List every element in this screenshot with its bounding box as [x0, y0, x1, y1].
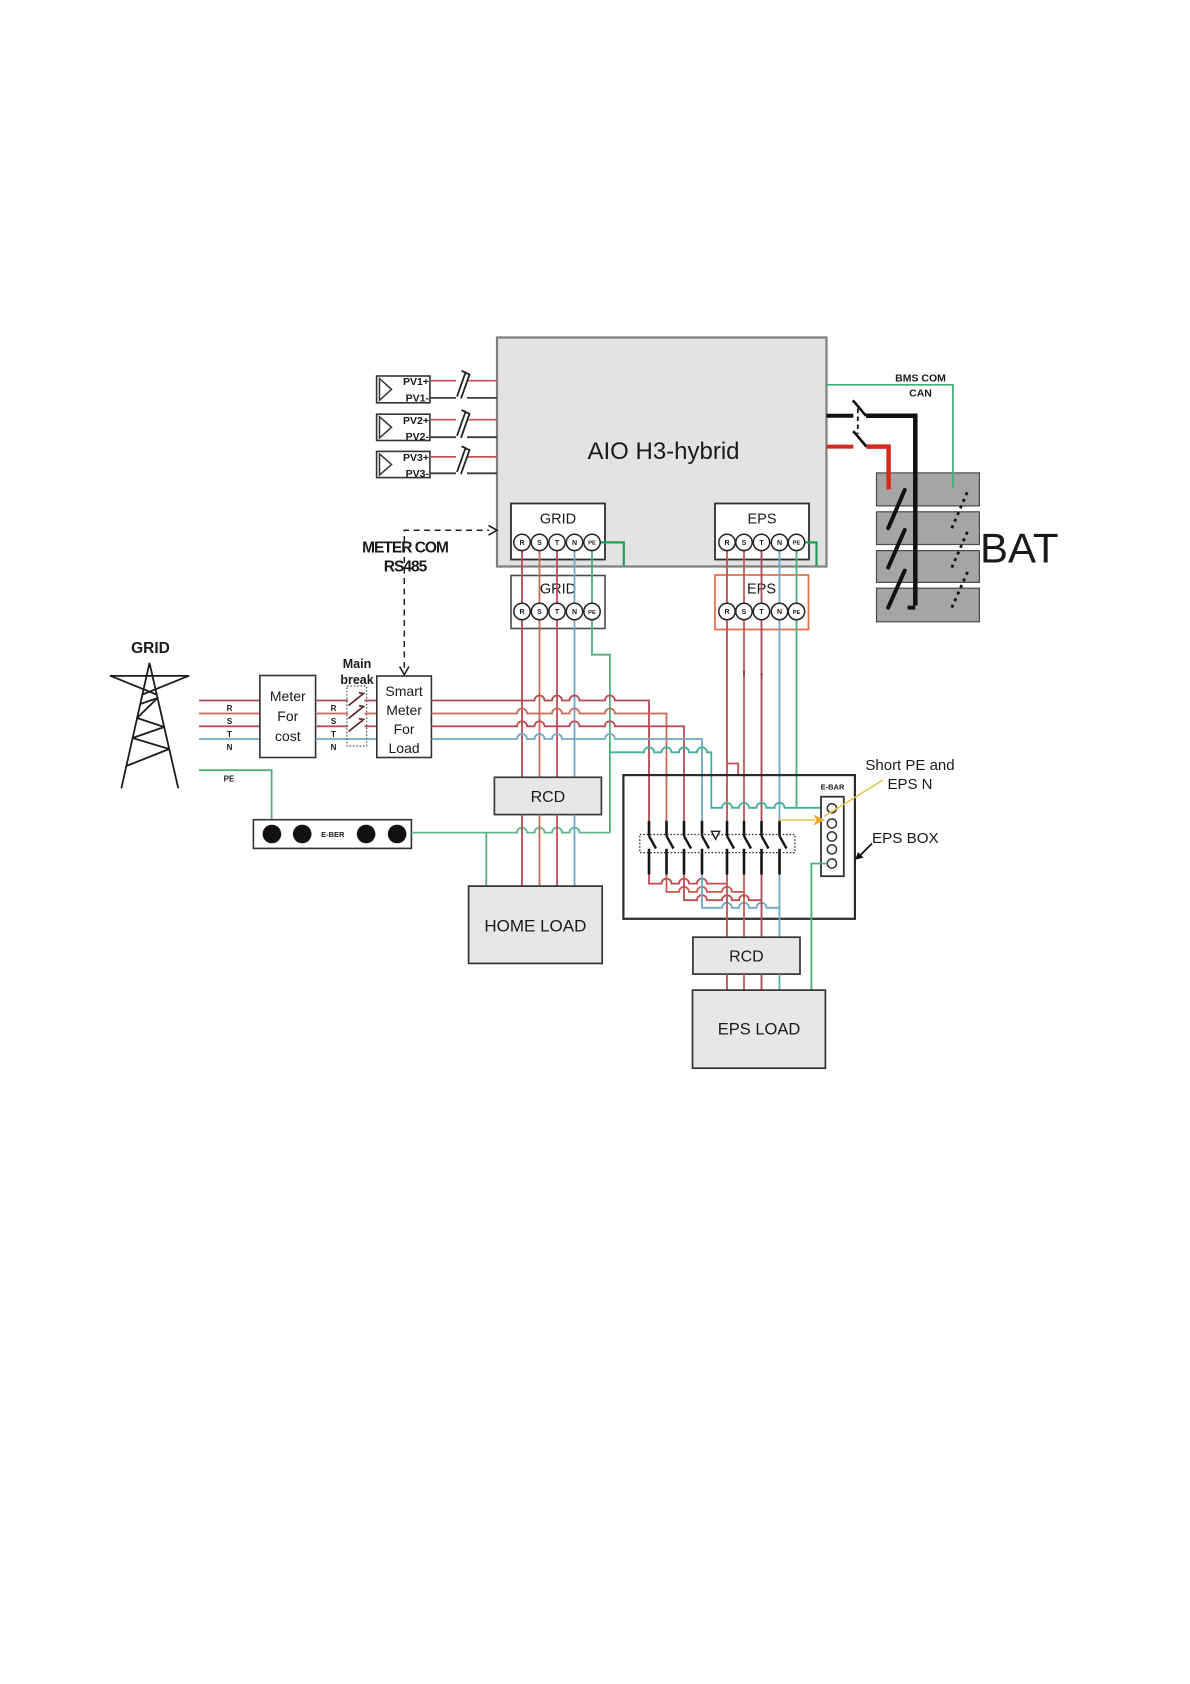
wire PV3- [430, 472, 456, 474]
PV string connector PV1 [377, 376, 430, 405]
switch link dashed [857, 409, 859, 434]
svg-text:PE: PE [588, 541, 596, 547]
wire T grid-to-meter [199, 725, 260, 727]
wire R meter-to-break [316, 700, 348, 702]
wire S grid-to-meter [199, 713, 260, 715]
wire R RCD-to-HOMELOAD [521, 815, 523, 887]
wire N meter-to-smartmeter [316, 738, 377, 740]
battery module 3 [877, 551, 980, 583]
svg-text:PV2+: PV2+ [403, 415, 429, 427]
wire PE branch to HOME LOAD [485, 833, 487, 887]
wire GRID T vertical [556, 550, 558, 777]
svg-text:Smart: Smart [385, 683, 422, 699]
earth busbar E-BAR [821, 783, 845, 877]
svg-text:N: N [331, 743, 337, 752]
contactor pole 2 (grid S) [667, 821, 674, 875]
svg-text:R: R [724, 540, 729, 547]
svg-text:EPS LOAD: EPS LOAD [718, 1021, 801, 1039]
interlock triangle marker [712, 831, 720, 839]
svg-text:N: N [777, 609, 782, 616]
wire EPS S vertical [743, 550, 745, 821]
svg-text:RS485: RS485 [384, 559, 428, 576]
wire PE E-BER to junction (hops over R,S,T,N) [412, 828, 610, 833]
wire GRID S vertical [539, 550, 541, 777]
battery link dashed slash 1 [952, 490, 968, 528]
svg-text:E-BER: E-BER [321, 830, 345, 839]
svg-text:HOME LOAD: HOME LOAD [484, 917, 586, 936]
battery link dashed slash 2 [952, 530, 968, 568]
wire PV1+ [430, 380, 456, 382]
wire eps T to RCD [761, 875, 763, 938]
terminal block EPS (external) [715, 575, 809, 630]
svg-text:RCD: RCD [729, 949, 764, 966]
wire link grid R to eps R (hops) [649, 875, 727, 884]
svg-text:PV3+: PV3+ [403, 452, 429, 464]
energy meter: Meter For cost [260, 676, 316, 758]
svg-text:T: T [759, 609, 764, 616]
contactor pole 5 (eps R) [727, 821, 734, 875]
svg-text:break: break [340, 673, 373, 687]
svg-text:Short PE and: Short PE and [865, 757, 954, 774]
svg-text:METER COM: METER COM [362, 540, 448, 557]
terminals GRID upper R S T N PE [514, 534, 600, 550]
wire eps N RCD-to-EPSLOAD [779, 974, 781, 990]
contactor pole 7 (eps T) [762, 821, 769, 875]
DC isolator Q3 [457, 446, 470, 474]
wire S break-to-smartmeter [365, 713, 377, 715]
terminals GRID lower R S T N PE [514, 603, 600, 619]
svg-text:PV1+: PV1+ [403, 376, 429, 388]
contactor pole 1 (grid R) [649, 821, 656, 875]
wire S meter-to-break [316, 713, 348, 715]
battery link slash 1 [888, 490, 905, 528]
PV string connector PV3 [377, 451, 430, 480]
wire R grid-to-meter [199, 700, 260, 702]
wire eps R RCD-to-EPSLOAD [726, 974, 728, 990]
wire BMS COM CAN (green) [827, 385, 953, 488]
svg-text:EPS N: EPS N [887, 776, 932, 793]
svg-text:Load: Load [389, 740, 420, 756]
contactor pole 4 (grid N) [702, 821, 709, 875]
interlock dotted frame [640, 835, 795, 853]
switch blade BAT+ [853, 400, 866, 415]
svg-text:CAN: CAN [909, 388, 932, 400]
svg-text:PE: PE [793, 610, 801, 616]
wire T smartmeter-to-EPSBOX (hops R,S,N,PE) [431, 721, 684, 821]
svg-text:PE: PE [588, 610, 596, 616]
wire N smartmeter-to-EPSBOX (hops R,S,T,PE) [431, 734, 702, 821]
battery module 4 [877, 588, 980, 622]
wire EPS PE vertical [796, 550, 798, 808]
svg-text:S: S [742, 609, 747, 616]
svg-text:N: N [572, 609, 577, 616]
wire GRID R vertical [521, 550, 523, 777]
svg-text:T: T [331, 730, 336, 739]
wire R smartmeter-to-EPSBOX (hops S,T,N,PE) [431, 696, 649, 821]
battery link slash 2 [888, 530, 905, 568]
DC isolator Q2 [457, 410, 470, 438]
terminal block GRID (inverter) [511, 504, 605, 560]
contactor pole 6 (eps S) [744, 821, 751, 875]
battery module 1 [877, 473, 980, 506]
wire PV1- [430, 397, 456, 399]
utility grid tower [111, 663, 189, 788]
wire GRID N vertical [574, 550, 576, 777]
wire BAT- (red) [827, 445, 854, 449]
wire eps N to RCD [779, 875, 781, 938]
wire PV2- [430, 436, 456, 438]
wire link grid S to eps S (hops) [667, 875, 745, 892]
wire GRID PE stub (inverter edge) [600, 542, 624, 565]
svg-text:For: For [394, 721, 415, 737]
svg-text:S: S [537, 609, 542, 616]
svg-text:S: S [742, 540, 747, 547]
wire N RCD-to-HOMELOAD [574, 815, 576, 887]
wire EPS T vertical [761, 550, 763, 821]
wire T meter-to-break [316, 725, 348, 727]
svg-text:AIO H3-hybrid: AIO H3-hybrid [587, 438, 739, 465]
wire EPS R vertical [726, 550, 728, 821]
wire link grid T to eps T (hops) [684, 875, 762, 901]
svg-text:PE: PE [793, 541, 801, 547]
wire T RCD-to-HOMELOAD [556, 815, 558, 887]
svg-text:T: T [555, 540, 560, 547]
wire PV3+ [430, 456, 456, 458]
jumper Short PE and EPS N (yellow) [780, 780, 884, 826]
svg-text:PE: PE [224, 775, 235, 784]
svg-text:PV3-: PV3- [406, 468, 430, 480]
wire eps S to RCD [743, 875, 745, 938]
wire T break-to-smartmeter [365, 725, 377, 727]
main breaker Q4 (Main break) [340, 657, 373, 746]
wire EPS N vertical [779, 550, 781, 821]
load block HOME LOAD [469, 886, 603, 963]
svg-text:EPS BOX: EPS BOX [872, 830, 939, 847]
wire PE from grid [199, 770, 272, 820]
svg-text:For: For [277, 708, 298, 724]
label EPS BOX with arrow [855, 830, 939, 860]
svg-text:cost: cost [275, 728, 301, 744]
svg-text:Meter: Meter [270, 688, 306, 704]
wire eps S RCD-to-EPSLOAD [743, 974, 745, 990]
svg-text:GRID: GRID [131, 640, 170, 657]
svg-text:E-BAR: E-BAR [821, 783, 845, 792]
battery module 2 [877, 512, 980, 545]
terminal block EPS (inverter) [715, 504, 809, 560]
svg-text:R: R [519, 540, 524, 547]
wire S smartmeter-to-EPSBOX (hops R,T,N,PE) [431, 709, 666, 821]
terminal block GRID (external) [511, 576, 605, 629]
svg-text:Meter: Meter [386, 702, 422, 718]
svg-text:R: R [724, 609, 729, 616]
wire PE E-BAR to EPS LOAD [811, 864, 827, 991]
svg-text:T: T [555, 609, 560, 616]
svg-text:EPS: EPS [747, 512, 776, 528]
wire S RCD-to-HOMELOAD [539, 815, 541, 887]
svg-text:S: S [537, 540, 542, 547]
battery link dashed slash 3 [952, 571, 968, 608]
direction tick on EPS T wire [760, 673, 762, 681]
wire N grid-to-meter [199, 738, 260, 740]
contactor pole 3 (grid T) [684, 821, 691, 875]
wire eps R to RCD [726, 875, 728, 938]
svg-text:RCD: RCD [531, 789, 566, 806]
earth busbar E-BER [253, 820, 411, 849]
svg-text:N: N [777, 540, 782, 547]
svg-text:PV1-: PV1- [406, 393, 430, 405]
svg-text:R: R [519, 609, 524, 616]
EPS BOX enclosure [623, 775, 855, 919]
RCD (home side) [494, 777, 601, 814]
svg-text:T: T [227, 730, 232, 739]
METER COM RS485 dashed link [362, 526, 497, 675]
load block EPS LOAD [693, 990, 826, 1068]
wire R break-to-smartmeter [365, 700, 377, 702]
smart meter: Smart Meter For Load [377, 676, 432, 758]
RCD (eps side) [693, 937, 800, 974]
inverter U1 AIO H3-hybrid [497, 338, 827, 567]
contactor pole 8 (eps N) [780, 821, 787, 875]
wire EPS PE stub (inverter edge) [805, 542, 817, 565]
svg-text:N: N [227, 743, 233, 752]
svg-text:PV2-: PV2- [406, 431, 430, 443]
wire BAT+ (black) [827, 414, 854, 418]
svg-text:S: S [331, 717, 337, 726]
svg-text:S: S [227, 717, 233, 726]
terminals EPS upper R S T N PE [719, 534, 805, 550]
switch blade BAT- [853, 431, 866, 446]
battery link slash 3 [888, 571, 905, 608]
svg-text:T: T [759, 540, 764, 547]
DC isolator Q1 [457, 371, 470, 399]
svg-text:GRID: GRID [540, 512, 576, 528]
node labels R S T N (right of meter) [331, 704, 337, 752]
svg-text:BMS COM: BMS COM [895, 373, 946, 385]
wire EPS R stub [727, 764, 738, 776]
svg-text:R: R [227, 704, 233, 713]
wire eps T RCD-to-EPSLOAD [761, 974, 763, 990]
svg-text:Main: Main [343, 657, 371, 671]
terminals EPS lower R S T N PE [719, 603, 805, 619]
wire PV2+ [430, 419, 456, 421]
svg-text:R: R [331, 704, 337, 713]
svg-text:BAT: BAT [980, 525, 1059, 572]
direction tick on EPS S wire [743, 671, 745, 679]
PV string connector PV2 [377, 414, 430, 443]
wire link grid N to eps N (hops) [702, 875, 780, 908]
wire GRID PE vertical with jog [592, 550, 610, 833]
svg-text:N: N [572, 540, 577, 547]
node labels R S T N (left of meter) [227, 704, 233, 752]
svg-text:GRID: GRID [540, 582, 576, 598]
wire PE to E-BAR (teal, hops poles) [610, 747, 827, 807]
